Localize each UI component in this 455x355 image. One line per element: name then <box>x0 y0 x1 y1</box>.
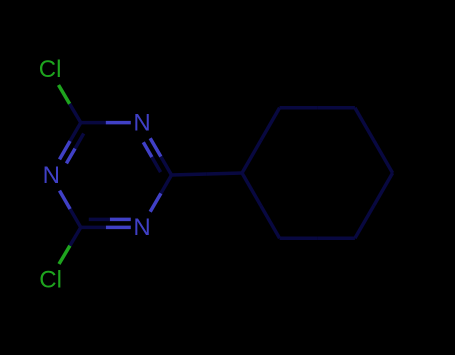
bond C4-N5 <box>70 209 81 227</box>
bond C2-cyclohexyl <box>172 174 207 175</box>
bond cyclohexane upper-left edge <box>242 140 261 173</box>
svg-text:Cl: Cl <box>39 266 62 293</box>
bond cyclohexane bottom edge <box>317 236 355 240</box>
bond cyclohexane top edge <box>280 106 318 110</box>
bond N5=C6 double inner line <box>66 149 75 164</box>
svg-text:N: N <box>133 109 150 136</box>
bond C6-N1 <box>81 121 106 125</box>
bond N3=C4 double inner line <box>110 218 131 222</box>
bond C2-N3 <box>161 175 172 193</box>
bond C4-Cl bottom <box>70 227 81 245</box>
bond N1=C2 double inner line <box>143 142 152 157</box>
svg-text:N: N <box>43 162 60 189</box>
bond N3=C4 <box>106 226 131 230</box>
bond cyclohexane upper-right edge <box>355 108 374 141</box>
bond cyclohexane lower-left edge <box>261 206 280 239</box>
bond N5=C6 <box>60 141 71 159</box>
svg-text:Cl: Cl <box>39 56 62 83</box>
bond N1=C2 <box>150 138 161 156</box>
bond cyclohexane lower-right edge <box>374 173 393 206</box>
svg-text:N: N <box>133 214 150 241</box>
bond C6-Cl top <box>70 104 81 123</box>
